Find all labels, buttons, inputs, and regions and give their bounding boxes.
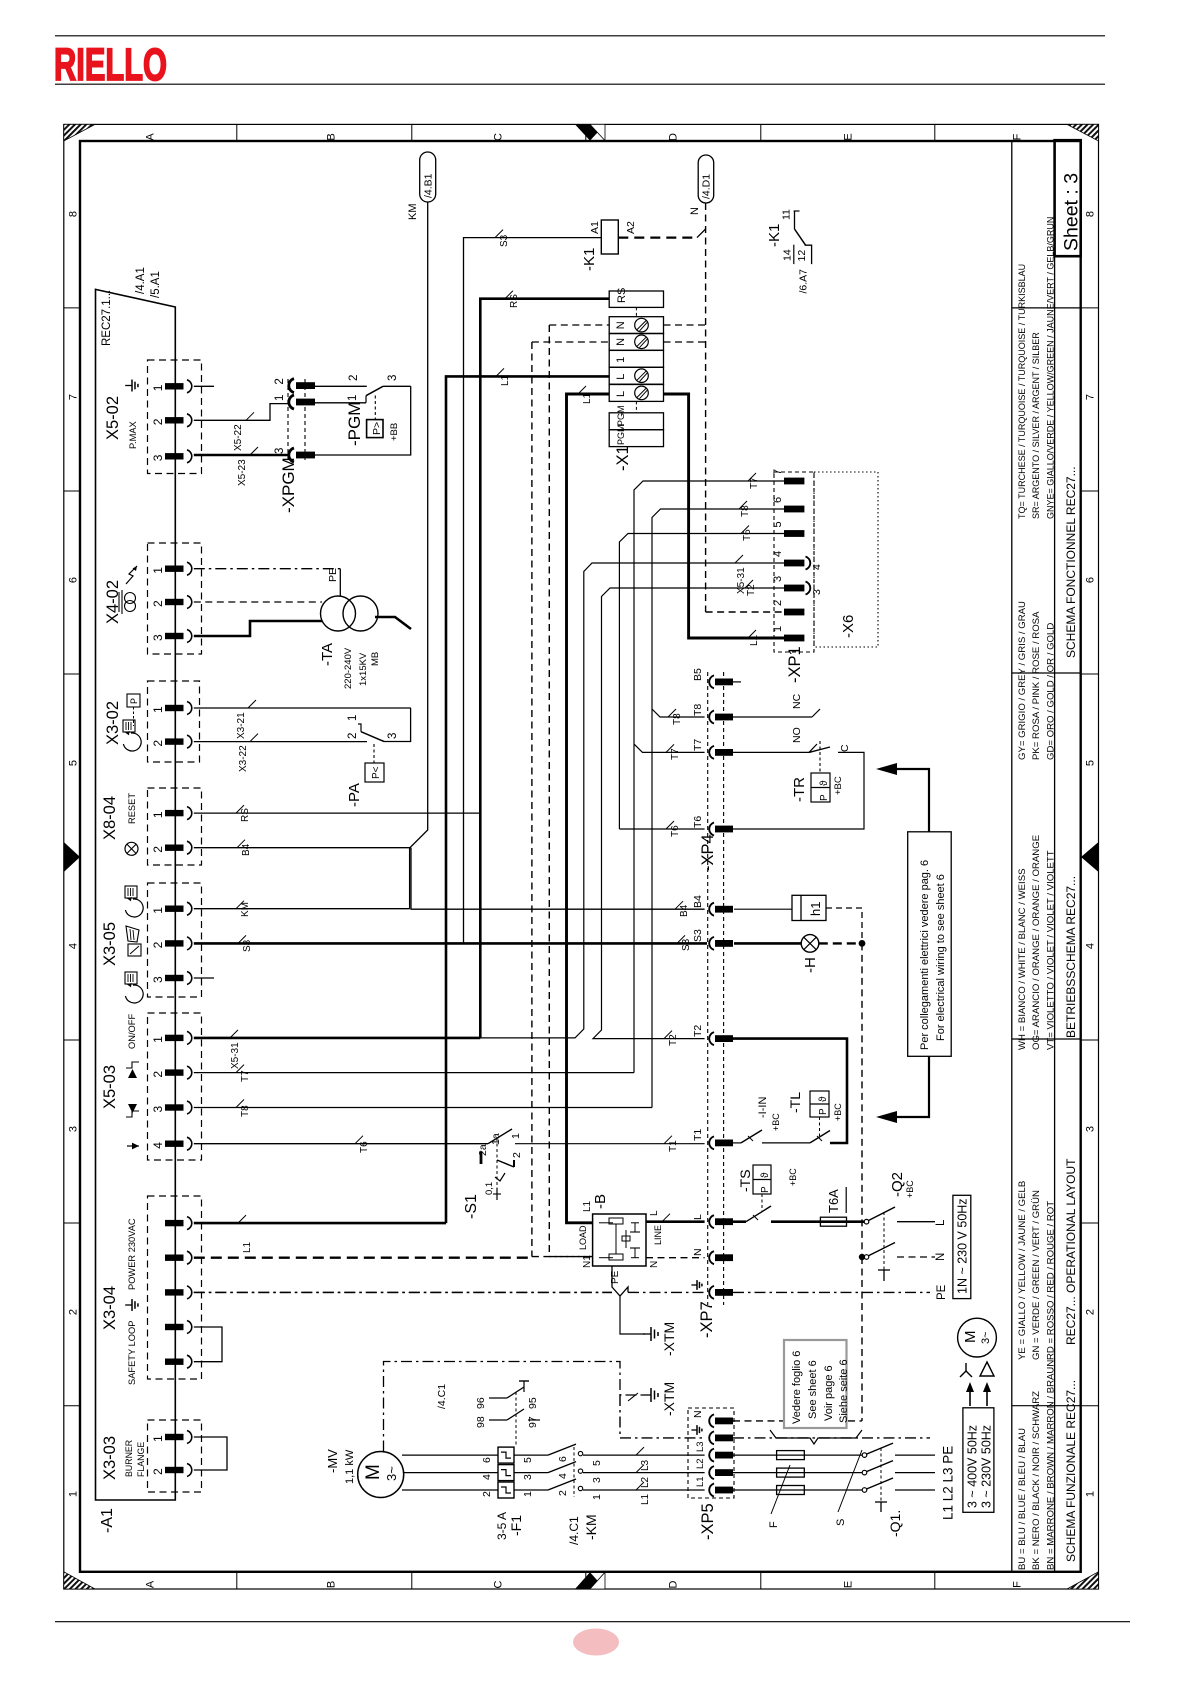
N dashed from XP5 — [733, 1420, 862, 1422]
svg-text:LOAD: LOAD — [578, 1225, 588, 1250]
svg-text:14: 14 — [782, 249, 794, 261]
svg-text:S3: S3 — [499, 234, 510, 247]
contactor -KM — [514, 1454, 548, 1456]
wire S3 thick — [194, 942, 707, 945]
svg-text:E: E — [843, 133, 855, 140]
svg-text:1: 1 — [151, 706, 165, 713]
connector X3-04 pins — [165, 1220, 184, 1226]
wire T2 XP1 — [593, 588, 784, 1039]
svg-text:FLANGE: FLANGE — [136, 1442, 146, 1477]
svg-text:P<: P< — [371, 766, 382, 779]
svg-text:+BC: +BC — [905, 1180, 915, 1198]
svg-text:4: 4 — [151, 1142, 165, 1149]
svg-text:3: 3 — [591, 1477, 603, 1483]
svg-text:/6.A7: /6.A7 — [798, 269, 810, 294]
XP5 pin N — [709, 1414, 714, 1427]
svg-text:T8: T8 — [672, 713, 683, 725]
svg-text:Siehe seite 6: Siehe seite 6 — [838, 1359, 850, 1423]
svg-text:-MV: -MV — [325, 1449, 340, 1473]
svg-text:5: 5 — [1085, 760, 1097, 766]
svg-text:SCHEMA FONCTIONNEL REC27...: SCHEMA FONCTIONNEL REC27... — [1064, 466, 1078, 658]
svg-text:3: 3 — [811, 589, 823, 595]
svg-text:REC27.1...: REC27.1... — [101, 290, 113, 346]
PE dash-dot bottom bus — [619, 1395, 621, 1438]
ground symbol at X5-02 pin 1 — [125, 380, 138, 392]
svg-text:8: 8 — [68, 211, 80, 217]
wire PE dash-dot — [194, 1291, 612, 1293]
centering marks — [575, 124, 605, 140]
svg-text:F: F — [768, 1521, 780, 1528]
svg-text:T8: T8 — [740, 505, 751, 517]
svg-text:D: D — [668, 1580, 680, 1588]
N cell dashes to right — [664, 324, 706, 326]
svg-text:B: B — [326, 133, 338, 140]
svg-text:3 ~ 230V 50Hz: 3 ~ 230V 50Hz — [980, 1425, 994, 1508]
svg-text:2: 2 — [151, 740, 165, 747]
svg-text:E: E — [843, 1581, 855, 1588]
svg-text:3~: 3~ — [384, 1466, 399, 1481]
dashed -H to junction thick — [819, 942, 862, 944]
svg-text:3: 3 — [68, 1126, 80, 1132]
fan icon X3-05 bottom — [125, 972, 137, 984]
connector -XPGM dashed lines — [287, 379, 289, 462]
connector X3-03 pins — [165, 1434, 184, 1440]
svg-text:1x15KV: 1x15KV — [358, 652, 369, 686]
svg-text:-K1: -K1 — [766, 224, 783, 247]
svg-text:1: 1 — [151, 811, 165, 818]
svg-text:-XTM: -XTM — [661, 1382, 677, 1416]
svg-text:P>: P> — [371, 422, 383, 435]
wire labels L3 L2 L1 — [636, 1447, 644, 1455]
svg-text:REC27... OPERATIONAL LAYOUT: REC27... OPERATIONAL LAYOUT — [1064, 1158, 1078, 1345]
wire N XP1 pin2 dashed — [706, 611, 784, 613]
svg-text:-K1: -K1 — [581, 248, 598, 271]
svg-text:3: 3 — [772, 576, 784, 582]
svg-text:X3-05: X3-05 — [101, 922, 119, 966]
svg-text:C: C — [493, 1580, 505, 1588]
svg-text:PK= ROSA / PINK / ROSE / ROSA: PK= ROSA / PINK / ROSE / ROSA — [1031, 611, 1042, 760]
wire T7 XP4 branch — [634, 744, 705, 752]
svg-text:3: 3 — [151, 454, 165, 461]
svg-text:PE: PE — [936, 1284, 948, 1300]
svg-text:Vedere foglio 6: Vedere foglio 6 — [791, 1351, 803, 1424]
reset lamp icon — [125, 842, 138, 855]
svg-text:/4.C1: /4.C1 — [567, 1516, 581, 1545]
svg-text:-XPGM: -XPGM — [279, 457, 298, 513]
svg-text:1: 1 — [510, 1133, 522, 1139]
XP1 pin 3 arc — [806, 582, 811, 595]
hour counter h1 — [734, 908, 792, 910]
svg-text:-X1: -X1 — [614, 445, 632, 471]
svg-text:T7: T7 — [240, 1070, 251, 1082]
svg-text:L: L — [649, 1210, 660, 1216]
svg-text:5: 5 — [68, 760, 80, 766]
svg-text:4: 4 — [557, 1473, 569, 1479]
svg-text:X5-31: X5-31 — [230, 1042, 241, 1069]
wire X5-22 — [194, 404, 288, 421]
svg-text:95: 95 — [527, 1397, 539, 1409]
N bus dashed pair — [531, 342, 533, 1257]
svg-text:/4.C1: /4.C1 — [436, 1384, 448, 1409]
svg-text:L1: L1 — [500, 374, 511, 386]
svg-text:2: 2 — [1085, 1309, 1097, 1315]
svg-text:T2: T2 — [746, 584, 757, 596]
svg-text:A: A — [145, 133, 157, 141]
N flag oval — [698, 155, 714, 203]
svg-text:-TA: -TA — [319, 643, 336, 666]
svg-text:+BB: +BB — [389, 423, 400, 441]
svg-text:X3-03: X3-03 — [101, 1436, 119, 1480]
terminal strip -X1 — [609, 291, 663, 307]
wire L to TS thick — [733, 1220, 746, 1223]
wire T7 XP1 — [634, 481, 784, 1073]
svg-text:For electrical wiring to see s: For electrical wiring to see sheet 6 — [935, 874, 947, 1041]
svg-text:4: 4 — [772, 551, 784, 557]
motor -MV — [358, 1452, 404, 1498]
disconnect -Q1 — [862, 1453, 867, 1458]
ground -XTM 2 — [384, 1362, 646, 1452]
svg-text:ϑ: ϑ — [760, 1172, 771, 1178]
svg-text:1,1 kW: 1,1 kW — [344, 1449, 356, 1484]
svg-text:See sheet 6: See sheet 6 — [807, 1360, 819, 1419]
svg-text:BN = MARRONE / BROWN / MARRON: BN = MARRONE / BROWN / MARRON / BRAUN — [1045, 1360, 1056, 1570]
svg-text:NO: NO — [791, 727, 803, 743]
ignition icon lightning — [126, 566, 137, 584]
wire T8 XP4 branch — [652, 709, 705, 717]
svg-text:1: 1 — [591, 1494, 603, 1500]
svg-text:WH = BIANCO / WHITE / BLANC /: WH = BIANCO / WHITE / BLANC / WEISS — [1017, 868, 1028, 1050]
svg-text:/5.A1: /5.A1 — [150, 271, 162, 298]
svg-text:L1: L1 — [582, 1200, 593, 1212]
arrow to -TR — [894, 769, 929, 832]
small motor M3~ — [958, 1318, 997, 1357]
svg-text:L: L — [692, 1214, 704, 1220]
svg-text:L: L — [615, 391, 627, 397]
XP4 pin S3 — [709, 937, 714, 950]
svg-text:X5-03: X5-03 — [101, 1065, 119, 1109]
svg-text:L1: L1 — [640, 1493, 651, 1505]
wire X4 pin3 thick — [194, 621, 322, 636]
svg-text:6: 6 — [481, 1457, 493, 1463]
svg-text:A: A — [145, 1580, 157, 1588]
sheet box — [1055, 140, 1081, 256]
svg-text:A1: A1 — [589, 221, 601, 234]
svg-text:L3: L3 — [640, 1459, 651, 1471]
wire L1 riser thick — [446, 376, 609, 1223]
-B L out thick — [646, 1220, 705, 1223]
svg-text:3: 3 — [151, 634, 165, 641]
svg-text:B4: B4 — [679, 904, 690, 917]
svg-text:3: 3 — [387, 375, 399, 381]
svg-text:-TL: -TL — [787, 1092, 803, 1113]
svg-text:-XTM: -XTM — [661, 1322, 677, 1356]
reference box vedere foglio — [784, 1340, 847, 1428]
ground icon X3-04 — [125, 1299, 138, 1311]
note box electrical wiring — [908, 832, 952, 1057]
svg-text:B: B — [326, 1581, 338, 1588]
svg-text:N: N — [689, 207, 701, 215]
arrow to -TL — [894, 1056, 929, 1117]
wire X5-23 — [194, 454, 288, 457]
svg-text:X5-23: X5-23 — [237, 459, 248, 486]
switch -S1 — [480, 1152, 483, 1164]
svg-text:SCHEMA FUNZIONALE REC27...: SCHEMA FUNZIONALE REC27... — [1064, 1380, 1078, 1562]
svg-text:-S1: -S1 — [463, 1194, 480, 1219]
svg-text:F: F — [1012, 1581, 1024, 1588]
svg-text:1: 1 — [1085, 1491, 1097, 1497]
svg-text:11: 11 — [781, 209, 793, 220]
svg-text:4: 4 — [811, 564, 823, 570]
svg-text:6: 6 — [1085, 577, 1097, 583]
svg-text:6: 6 — [557, 1456, 569, 1462]
svg-text:2: 2 — [481, 1491, 493, 1497]
wire N from K1 A2 dashed — [618, 237, 697, 239]
wire T8 XP1 — [652, 509, 784, 1108]
svg-text:N: N — [692, 1410, 704, 1418]
svg-text:3: 3 — [1085, 1126, 1097, 1132]
wire T8 to pin3 — [194, 1107, 652, 1109]
connector X3-04 dashed box — [148, 1196, 202, 1379]
svg-text:P: P — [760, 1186, 771, 1193]
svg-text:6: 6 — [68, 577, 80, 583]
XP7 pin L — [709, 1215, 714, 1228]
svg-text:T8: T8 — [240, 1105, 251, 1117]
svg-text:/4.A1: /4.A1 — [135, 267, 147, 294]
svg-text:RS: RS — [509, 294, 520, 308]
svg-text:X8-04: X8-04 — [101, 796, 119, 840]
svg-text:1: 1 — [522, 1491, 534, 1497]
svg-text:B4: B4 — [241, 843, 252, 856]
arrows to star delta — [969, 1388, 971, 1406]
svg-text:1: 1 — [151, 907, 165, 914]
svg-text:2: 2 — [151, 1071, 165, 1078]
svg-text:1: 1 — [151, 384, 165, 391]
svg-text:T7: T7 — [692, 739, 704, 751]
title block bands — [1011, 141, 1013, 1572]
svg-text:X3-04: X3-04 — [101, 1286, 119, 1330]
svg-text:220-240V: 220-240V — [343, 647, 354, 689]
svg-text:T1: T1 — [668, 1140, 679, 1152]
svg-text:-Q1.: -Q1. — [887, 1510, 903, 1537]
connector X4-02 pins — [165, 566, 184, 572]
svg-text:P.MAX: P.MAX — [128, 421, 138, 449]
svg-text:P: P — [819, 794, 830, 801]
svg-text:-Q2: -Q2 — [889, 1172, 906, 1197]
delta symbol — [980, 1362, 994, 1376]
svg-text:SR= ARGENTO / SILVER / ARGENT: SR= ARGENTO / SILVER / ARGENT / SILBER — [1031, 332, 1041, 519]
XP4 pin B4 — [709, 903, 714, 916]
wire PE dash-dot to -TA — [194, 568, 340, 570]
svg-text:T1: T1 — [692, 1129, 704, 1141]
pressure icon P — [127, 694, 140, 707]
brace over mains — [770, 1430, 862, 1444]
svg-text:2: 2 — [151, 846, 165, 853]
svg-text:2: 2 — [151, 941, 165, 948]
svg-text:C: C — [839, 744, 851, 752]
svg-text:1: 1 — [347, 715, 359, 721]
svg-text:POWER 230VAC: POWER 230VAC — [127, 1218, 137, 1290]
fuses F — [733, 1454, 777, 1456]
svg-text:1: 1 — [615, 357, 627, 363]
svg-text:GN = VERDE / GREEN / VERT / GR: GN = VERDE / GREEN / VERT / GRÜN — [1031, 1190, 1042, 1360]
svg-text:-F1: -F1 — [508, 1515, 524, 1536]
svg-text:BU = BLU / BLUE / BLEU / BLAU: BU = BLU / BLUE / BLEU / BLAU — [1017, 1428, 1028, 1570]
svg-text:-TR: -TR — [791, 777, 808, 802]
N cell dashes to left — [549, 324, 609, 326]
connector X4-02 dashed box — [148, 543, 202, 654]
svg-text:F: F — [1012, 133, 1024, 140]
svg-text:96: 96 — [475, 1397, 487, 1409]
connector X3-02 dashed box — [148, 681, 200, 762]
pink stamp — [573, 1629, 619, 1656]
svg-text:N: N — [615, 321, 627, 329]
safety loop jumper — [194, 1327, 222, 1362]
svg-text:GD= ORO / GOLD / OR / GOLD: GD= ORO / GOLD / OR / GOLD — [1045, 623, 1056, 760]
icon min load — [128, 1069, 137, 1078]
wire X3-22 — [194, 741, 367, 743]
wire RS thick riser — [480, 299, 609, 1038]
svg-text:4: 4 — [1085, 943, 1097, 949]
svg-text:L1: L1 — [749, 634, 760, 646]
svg-text:1N ~ 230 V 50Hz: 1N ~ 230 V 50Hz — [956, 1198, 970, 1294]
svg-text:BURNER: BURNER — [124, 1440, 134, 1477]
svg-text:T6A: T6A — [826, 1189, 841, 1213]
thermostat -TL — [762, 1142, 810, 1144]
svg-text:MB: MB — [370, 652, 381, 666]
transformer icon — [125, 593, 136, 604]
F label — [771, 1465, 790, 1514]
svg-text:-B: -B — [592, 1194, 609, 1209]
svg-text:N: N — [615, 338, 627, 346]
svg-text:PGM: PGM — [616, 405, 626, 426]
svg-text:LINE: LINE — [653, 1225, 663, 1245]
wire T6 XP1 — [619, 534, 784, 830]
connector -XP4 cable dashes — [707, 672, 709, 1305]
svg-text:8: 8 — [1085, 211, 1097, 217]
svg-text:T6: T6 — [692, 816, 704, 828]
wire X4 pin2 dashed — [194, 601, 322, 603]
svg-text:2: 2 — [68, 1309, 80, 1315]
svg-text:2: 2 — [511, 1152, 523, 1158]
wire L1 X1 to XP1 thick — [664, 394, 785, 638]
controller -A1 box — [96, 289, 176, 1500]
connector X5-03 pins — [165, 1035, 184, 1041]
svg-text:6: 6 — [772, 497, 784, 503]
relay coil -K1 — [601, 220, 618, 254]
svg-text:L: L — [615, 374, 627, 380]
KM flag oval — [420, 152, 436, 202]
svg-text:97: 97 — [527, 1416, 539, 1428]
star symbol — [965, 1363, 967, 1371]
svg-text:L1 L2 L3 PE: L1 L2 L3 PE — [941, 1446, 956, 1520]
svg-text:GNYE= GIALLO/VERDE / YELLOW/GR: GNYE= GIALLO/VERDE / YELLOW/GREEN / JAUN… — [1045, 217, 1055, 519]
svg-text:-I-IN: -I-IN — [757, 1097, 769, 1118]
XP7 pin T2 — [709, 1032, 714, 1045]
svg-text:L: L — [935, 1219, 947, 1226]
wire N bold dashed — [194, 1256, 532, 1258]
svg-text:2: 2 — [274, 378, 286, 384]
wire X5-31 XP1 — [480, 563, 784, 1038]
XP7 pin T1 — [709, 1136, 714, 1149]
wire S3 to K1 — [464, 238, 602, 944]
svg-text:ON/OFF: ON/OFF — [127, 1014, 137, 1049]
wire X5-31 thick — [194, 1037, 481, 1040]
svg-text:T2: T2 — [692, 1025, 704, 1037]
fan icon X3-02 — [123, 720, 135, 732]
XP7 pin PE — [709, 1286, 714, 1299]
wire B4 — [194, 847, 411, 849]
wire L1 X1 to B thick — [567, 394, 610, 1223]
svg-text:N: N — [692, 1248, 704, 1256]
main switch -Q2 — [847, 1220, 865, 1223]
wire T6 to pin4 — [194, 1143, 488, 1145]
connector X3-05 dashed box — [148, 883, 202, 997]
icon max load — [128, 1104, 137, 1113]
svg-text:T6: T6 — [359, 1141, 370, 1153]
svg-text:X3-02: X3-02 — [104, 701, 122, 745]
N bus horizontal dashed — [532, 1256, 593, 1258]
svg-text:T7: T7 — [670, 748, 681, 760]
ground -XTM 1 — [620, 1296, 645, 1334]
svg-text:X3-21: X3-21 — [236, 712, 247, 739]
svg-text:4: 4 — [481, 1474, 493, 1480]
svg-text:+BC: +BC — [833, 1103, 843, 1121]
svg-text:TQ= TURCHESE / TURQUOISE / TUR: TQ= TURCHESE / TURQUOISE / TURQUOISE / T… — [1017, 264, 1027, 519]
svg-text:/4.D1: /4.D1 — [701, 174, 713, 199]
svg-text:RS: RS — [240, 808, 251, 822]
svg-text:S3: S3 — [242, 939, 253, 952]
RC filter -B box — [593, 1214, 646, 1266]
svg-text:-XP5: -XP5 — [699, 1503, 717, 1540]
wire KM vertical — [410, 202, 428, 909]
svg-text:-XP1: -XP1 — [786, 646, 804, 683]
svg-text:3~: 3~ — [980, 1331, 992, 1344]
svg-text:12: 12 — [796, 250, 808, 262]
svg-text:L1: L1 — [582, 392, 593, 404]
wire L1 XP1 thick label — [748, 630, 756, 638]
XP5 pin PE — [709, 1431, 714, 1444]
svg-text:Voir page 6: Voir page 6 — [823, 1365, 835, 1421]
svg-text:Per collegamenti elettrici ved: Per collegamenti elettrici vedere pag. 6 — [919, 860, 931, 1050]
svg-text:SAFETY LOOP: SAFETY LOOP — [127, 1321, 137, 1385]
lamp -H — [734, 942, 801, 945]
-TA secondary lead — [375, 617, 411, 629]
svg-text:KM: KM — [407, 204, 419, 221]
svg-text:P: P — [818, 1108, 829, 1115]
svg-text:3: 3 — [274, 448, 286, 454]
wire T2 thick loop — [733, 1039, 847, 1143]
motor leads — [402, 1454, 498, 1456]
frame zone dividers top/bottom — [236, 124, 238, 141]
S label — [838, 1450, 862, 1512]
svg-text:ϑ: ϑ — [819, 780, 830, 786]
wire T6 XP4 — [619, 828, 704, 830]
svg-text:+BC: +BC — [833, 776, 844, 795]
svg-text:RD = ROSSO / RED / ROUGE / ROT: RD = ROSSO / RED / ROUGE / ROT — [1045, 1201, 1056, 1360]
svg-text:RIELLO: RIELLO — [54, 39, 167, 90]
svg-text:T8: T8 — [692, 704, 704, 716]
XP5 pins L3 L2 L1 — [709, 1449, 714, 1462]
svg-text:7: 7 — [68, 394, 80, 400]
fan icon X3-05 top — [125, 886, 137, 898]
wire X3-21 — [194, 707, 411, 709]
dashed h1 to junction — [826, 908, 862, 943]
connector X3-02 pins — [165, 705, 184, 711]
svg-text:B5: B5 — [692, 668, 704, 681]
PE chevron and bus — [612, 1266, 628, 1296]
svg-text:RESET: RESET — [127, 793, 137, 824]
svg-text:OG= ARANCIO / ORANGE / ORANGE: OG= ARANCIO / ORANGE / ORANGE / ORANGE — [1031, 835, 1042, 1050]
